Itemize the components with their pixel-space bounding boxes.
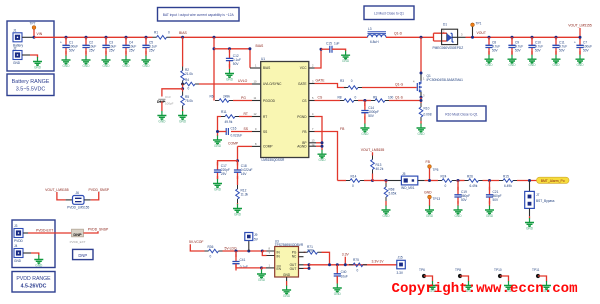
svg-text:VOUT_LM5155: VOUT_LM5155 (45, 188, 69, 192)
svg-text:100pF: 100pF (165, 102, 174, 106)
resistor R10 (419, 103, 423, 121)
svg-text:VOUT: VOUT (477, 31, 486, 35)
svg-text:100: 100 (388, 96, 394, 100)
svg-text:VCC: VCC (300, 66, 307, 70)
svg-text:GND: GND (226, 78, 234, 82)
svg-text:R10 Must Close to Q1: R10 Must Close to Q1 (445, 112, 478, 116)
svg-text:GND: GND (122, 64, 130, 68)
node Q1 drain junction (420, 36, 423, 39)
svg-text:50V: 50V (535, 49, 542, 53)
svg-text:PMEG060V050EPDZ: PMEG060V050EPDZ (433, 46, 464, 50)
capacitor C4 (125, 36, 128, 39)
svg-text:6.49k: 6.49k (504, 184, 512, 188)
wire UVLO to pin (199, 83, 252, 85)
svg-text:5.65k: 5.65k (389, 191, 397, 195)
svg-text:RT: RT (263, 115, 267, 119)
svg-text:J7: J7 (536, 193, 540, 197)
svg-text:TP6: TP6 (419, 268, 425, 272)
svg-text:GND: GND (214, 144, 222, 148)
svg-text:J5: J5 (402, 172, 406, 176)
svg-text:R8: R8 (338, 96, 342, 100)
inductor L3 (368, 32, 387, 34)
svg-text:J6: J6 (76, 191, 80, 195)
svg-text:GND: GND (508, 63, 516, 67)
svg-text:25V: 25V (221, 172, 228, 176)
ground (U3 GND pin) (286, 277, 288, 281)
wire GATE (309, 83, 315, 85)
node Q1 source junction (420, 92, 422, 97)
svg-text:49.9k: 49.9k (225, 120, 233, 124)
svg-text:PVDD-EXT: PVDD-EXT (36, 228, 53, 232)
resistor R36 (205, 249, 223, 253)
svg-text:GND: GND (82, 64, 90, 68)
svg-text:R36: R36 (208, 245, 214, 249)
node EN/GND junction (260, 266, 263, 269)
svg-text:PVDD_LM5155: PVDD_LM5155 (67, 206, 89, 210)
svg-text:PVDD_EXT: PVDD_EXT (70, 240, 86, 244)
svg-text:75.0k: 75.0k (185, 99, 193, 103)
connector J3 (14, 229, 23, 238)
svg-text:3.3V: 3.3V (397, 271, 404, 275)
testpoint TP13 GND (428, 195, 432, 199)
svg-text:Copyright:www.eccn.com: Copyright:www.eccn.com (392, 281, 578, 297)
svg-text:50V: 50V (492, 49, 499, 53)
svg-text:50V: 50V (461, 198, 468, 202)
svg-text:GND: GND (576, 63, 584, 67)
capacitor C18 (237, 161, 239, 166)
svg-text:C16: C16 (231, 126, 237, 130)
resistor R71 (304, 251, 322, 255)
ground (J2) (33, 57, 42, 66)
svg-text:+: + (60, 41, 62, 45)
resistor R13 (371, 156, 375, 174)
node VIN junction (33, 36, 36, 39)
svg-text:RT: RT (244, 112, 248, 116)
svg-text:VOUT_LM5155: VOUT_LM5155 (361, 148, 385, 152)
svg-text:GND: GND (142, 64, 150, 68)
svg-text:R26: R26 (467, 175, 473, 179)
node PVDD_SNSP (bottom) (84, 232, 99, 233)
jumper J6 (66, 199, 73, 201)
svg-text:J4: J4 (14, 244, 18, 248)
svg-text:+: + (574, 41, 576, 45)
note box: R10 must close to Q1 (437, 106, 486, 121)
connector J4 (14, 249, 23, 258)
svg-text:5V-LDO: 5V-LDO (225, 246, 237, 250)
svg-text:Q1-S: Q1-S (395, 96, 404, 100)
svg-text:GND: GND (283, 273, 291, 277)
capacitor C2 (85, 36, 88, 39)
svg-text:COMP: COMP (228, 142, 239, 146)
svg-text:0: 0 (168, 31, 170, 35)
svg-text:D1: D1 (443, 22, 447, 26)
svg-text:10uF: 10uF (341, 275, 348, 279)
svg-text:0: 0 (188, 87, 190, 91)
svg-text:FB: FB (426, 160, 431, 164)
svg-text:3.5~5.5VDC: 3.5~5.5VDC (16, 87, 46, 93)
svg-text:DNP: DNP (157, 100, 165, 104)
svg-text:GATE: GATE (298, 82, 306, 86)
svg-text:GND: GND (486, 214, 494, 218)
svg-text:R1: R1 (154, 31, 158, 35)
svg-text:R9: R9 (373, 96, 377, 100)
wire IN pins (261, 250, 264, 253)
ground (RT/SS) (213, 136, 222, 145)
resistor R8 (340, 99, 358, 103)
svg-text:L3: L3 (368, 27, 372, 31)
node UVLO junction (181, 83, 184, 86)
svg-text:R15: R15 (503, 175, 509, 179)
resistor R24 (438, 179, 456, 183)
svg-text:R11: R11 (221, 110, 227, 114)
svg-text:Battery RANGE: Battery RANGE (12, 79, 50, 85)
capacitor C21 (489, 181, 491, 191)
svg-text:GND: GND (318, 158, 326, 162)
svg-text:U1: U1 (261, 57, 265, 61)
svg-text:TP7: TP7 (30, 22, 36, 26)
wire BP / AGND (309, 142, 316, 144)
connector J1 (13, 33, 22, 42)
svg-text:C15: C15 (326, 42, 332, 46)
svg-text:16V: 16V (241, 172, 248, 176)
svg-text:50V: 50V (493, 198, 500, 202)
svg-text:0.022uF: 0.022uF (231, 134, 243, 138)
resistor R14 (FB row) (338, 180, 347, 182)
wire CS (309, 100, 315, 102)
ground (BP/AGND/PGND) (318, 150, 327, 159)
capacitor C10 (531, 36, 534, 39)
svg-text:UVLO: UVLO (238, 79, 248, 83)
wire PGND down to ground (309, 116, 315, 118)
capacitor C11 (555, 36, 558, 39)
wire J2 to ground (22, 54, 30, 56)
capacitor C8 (488, 36, 491, 39)
svg-text:GND: GND (342, 59, 350, 63)
op-amp U3 LDO (275, 247, 299, 278)
svg-text:50V: 50V (69, 49, 76, 53)
svg-text:GND: GND (528, 63, 536, 67)
svg-text:GND: GND (258, 278, 266, 282)
svg-text:GND: GND (382, 214, 390, 218)
svg-text:R6: R6 (210, 94, 214, 98)
svg-text:IND_M01: IND_M01 (401, 186, 415, 190)
resistor R9 (371, 99, 389, 103)
svg-text:GND: GND (13, 61, 21, 65)
svg-text:0: 0 (445, 184, 447, 188)
svg-text:R24: R24 (441, 175, 447, 179)
capacitor C17 (218, 161, 238, 166)
svg-text:FB: FB (302, 130, 306, 134)
connector J15 (3.3V) (397, 260, 406, 269)
wire VIN rail (34, 36, 153, 38)
svg-text:DNP: DNP (73, 232, 82, 237)
svg-text:0.008: 0.008 (424, 113, 432, 117)
wire COMP (252, 145, 261, 147)
svg-text:J2: J2 (13, 46, 17, 50)
svg-text:21.0k: 21.0k (185, 72, 193, 76)
svg-text:EN: EN (277, 267, 282, 271)
svg-text:R10: R10 (424, 106, 430, 110)
pin NC stub (299, 256, 304, 258)
svg-text:GND: GND (158, 120, 166, 124)
svg-text:C13: C13 (165, 95, 171, 99)
node VOUT_LM5155 label top right (579, 28, 581, 37)
svg-text:PGOOD: PGOOD (263, 99, 276, 103)
svg-text:GND: GND (14, 259, 22, 263)
connector J5 (401, 176, 417, 185)
testpoint TP5 FB (428, 165, 432, 169)
capacitor C13 DNP (162, 89, 183, 97)
svg-text:249k: 249k (223, 94, 230, 98)
svg-text:GND: GND (361, 132, 369, 136)
wire to J5 (388, 180, 401, 182)
resistor R75 (349, 263, 367, 267)
resistor R12 (237, 176, 239, 185)
svg-text:SS: SS (263, 130, 267, 134)
wire BIAS rail (171, 36, 368, 38)
capacitor C9 (511, 36, 514, 39)
resistor R15 (499, 179, 517, 183)
svg-text:GND: GND (283, 294, 291, 298)
resistor R2 (181, 67, 185, 85)
resistor R4 (181, 83, 183, 85)
svg-text:BST_Bypass: BST_Bypass (536, 199, 555, 203)
svg-text:25V: 25V (149, 49, 156, 53)
PVDD input box (12, 220, 55, 268)
svg-text:VIN: VIN (37, 32, 43, 36)
svg-text:0: 0 (357, 268, 359, 272)
battery input box (7, 21, 54, 71)
svg-text:GND: GND (485, 63, 493, 67)
svg-text:PVDD: PVDD (14, 239, 24, 243)
svg-text:UVLO/SYNC: UVLO/SYNC (263, 82, 282, 86)
svg-text:25V: 25V (109, 49, 116, 53)
resistor R3 (344, 86, 362, 90)
svg-text:C41: C41 (240, 258, 246, 262)
svg-text:C40: C40 (341, 270, 347, 274)
op-amp U1 LM5155 boost controller (261, 62, 309, 158)
svg-text:R14: R14 (351, 175, 357, 179)
svg-text:LM5155QDSSR: LM5155QDSSR (262, 158, 286, 162)
svg-text:IPC50N04S5L5A5ATMA1: IPC50N04S5L5A5ATMA1 (427, 78, 464, 82)
svg-text:GND: GND (454, 214, 462, 218)
svg-text:COMP: COMP (263, 145, 273, 149)
wire J1 to VIN node (22, 36, 34, 38)
capacitor C16 (SS) (252, 131, 261, 133)
svg-text:GND: GND (234, 213, 242, 217)
svg-text:CS: CS (302, 99, 306, 103)
ferrite FB1 DNP (72, 229, 84, 237)
svg-text:1uF: 1uF (334, 42, 340, 46)
svg-text:PVDD_SNSP: PVDD_SNSP (88, 227, 109, 231)
svg-text:GND: GND (424, 191, 432, 195)
resistor R1 (153, 36, 171, 40)
svg-text:L3 Must Close to Q1: L3 Must Close to Q1 (374, 12, 404, 16)
svg-text:4.5-26VDC: 4.5-26VDC (21, 284, 47, 290)
svg-text:Q1-G: Q1-G (395, 83, 404, 87)
wire diode to VOUT rail (466, 36, 581, 38)
svg-text:50V: 50V (368, 114, 375, 118)
svg-text:GND: GND (214, 188, 222, 192)
svg-text:0: 0 (351, 79, 353, 83)
svg-text:SS: SS (244, 127, 249, 131)
diode D1 (433, 33, 435, 41)
svg-text:50V: 50V (515, 49, 522, 53)
capacitor C3 (105, 36, 108, 39)
svg-text:NC: NC (292, 255, 297, 259)
svg-text:GND: GND (102, 64, 110, 68)
note box DNP (73, 249, 93, 259)
node BIAS junction / wire down to R2 (181, 36, 184, 39)
capacitor C41 (235, 250, 238, 253)
svg-text:GATE: GATE (316, 79, 326, 83)
svg-text:GND: GND (35, 264, 43, 268)
resistor R6 (PGOOD pull-up) (215, 99, 233, 103)
svg-text:R75: R75 (353, 258, 359, 262)
svg-text:GND: GND (34, 66, 42, 70)
svg-text:3.3V: 3.3V (342, 253, 350, 257)
svg-text:CS: CS (318, 96, 323, 100)
svg-text:40.2k: 40.2k (376, 167, 384, 171)
svg-text:GND: GND (552, 63, 560, 67)
svg-text:R4: R4 (185, 78, 189, 82)
capacitor C40 (336, 263, 339, 266)
wire VCC to bypass (309, 67, 315, 69)
node BMT_Alarm_Po (highlighted) (537, 177, 570, 183)
svg-text:GND: GND (179, 120, 187, 124)
svg-text:GND: GND (62, 64, 70, 68)
transistor Q1 (420, 37, 422, 73)
wire U3 OUT (299, 265, 304, 269)
svg-text:J3: J3 (14, 224, 18, 228)
svg-text:BAT input / output wire curren: BAT input / output wire current capabili… (163, 13, 235, 17)
connector J7 BST_Bypass (529, 181, 531, 192)
connector J2 (13, 51, 22, 60)
svg-text:J1: J1 (13, 29, 17, 33)
svg-text:6.49k: 6.49k (470, 184, 478, 188)
svg-text:TP10: TP10 (494, 268, 502, 272)
capacitor C7 (579, 37, 581, 40)
svg-text:BIAS: BIAS (179, 31, 187, 35)
note box: L3 must close to Q1 (364, 6, 414, 20)
svg-text:BIAS: BIAS (256, 44, 264, 48)
svg-text:AGND: AGND (297, 145, 307, 149)
svg-text:3.3V-1V: 3.3V-1V (372, 260, 385, 264)
svg-text:GND: GND (526, 227, 534, 231)
svg-text:11.3k: 11.3k (241, 192, 249, 196)
svg-text:TP11: TP11 (532, 268, 540, 272)
svg-text:GND: GND (426, 214, 434, 218)
svg-text:249k: 249k (307, 248, 314, 252)
svg-text:PGND: PGND (297, 115, 307, 119)
svg-text:50V: 50V (233, 62, 240, 66)
svg-text:FB: FB (340, 127, 345, 131)
capacitor C12 (228, 47, 231, 50)
svg-text:GND: GND (417, 132, 425, 136)
connector J9 (5V) (247, 250, 250, 253)
svg-text:TP5: TP5 (433, 168, 439, 172)
capacitor C15 (VCC bypass) (321, 48, 330, 50)
svg-text:25V: 25V (89, 49, 96, 53)
svg-text:Q1-D: Q1-D (394, 31, 403, 35)
resistor R26 (465, 179, 483, 183)
svg-text:0: 0 (355, 96, 357, 100)
wire FB (309, 131, 315, 133)
svg-text:J15: J15 (398, 256, 403, 260)
note box: BAT wire current (158, 8, 240, 22)
svg-text:50V: 50V (559, 49, 566, 53)
node FB divider top / label VOUT_LM5155 (371, 179, 374, 182)
wire PVDD-EXT (23, 232, 28, 234)
wire L3 to diode (386, 36, 434, 38)
svg-text:R3: R3 (340, 79, 344, 83)
svg-text:25V: 25V (129, 49, 136, 53)
capacitor C14 (364, 101, 366, 107)
node rail to PGOOD drop (213, 36, 216, 39)
svg-text:DNP: DNP (78, 253, 87, 258)
svg-text:TPS7B6950QDBVR: TPS7B6950QDBVR (275, 243, 304, 247)
svg-text:0: 0 (210, 254, 212, 258)
svg-text:TP1: TP1 (476, 21, 482, 25)
svg-text:0: 0 (352, 184, 354, 188)
svg-text:PG: PG (292, 250, 297, 254)
testpoint TP1 VOUT (471, 23, 475, 27)
resistor R11 (RT) (252, 116, 261, 118)
svg-text:50V: 50V (583, 49, 590, 53)
svg-text:OUT: OUT (290, 267, 297, 271)
svg-text:TP8: TP8 (455, 268, 461, 272)
svg-text:PG: PG (241, 96, 246, 100)
svg-text:GND: GND (334, 292, 342, 296)
svg-text:TP13: TP13 (433, 197, 441, 201)
svg-text:6.8uH: 6.8uH (370, 40, 379, 44)
svg-text:VOUT_LM5155: VOUT_LM5155 (568, 23, 592, 27)
svg-text:BIAS: BIAS (263, 66, 270, 70)
svg-text:PVDD RANGE: PVDD RANGE (16, 276, 51, 282)
svg-text:PVDD_SNSP: PVDD_SNSP (88, 188, 109, 192)
wire BIAS pin feed (213, 47, 216, 50)
capacitor C1 (65, 36, 68, 39)
node PVDD_SNSP (top) (91, 192, 99, 200)
resistor R68 (FB low side) (385, 181, 387, 184)
capacitor C5 (145, 36, 148, 39)
wire U3 PG pull-up (299, 251, 304, 253)
svg-text:BMT_Alarm_Po: BMT_Alarm_Po (541, 179, 565, 183)
testpoint TP7 VIN (32, 26, 36, 30)
resistor R5 (182, 89, 184, 92)
wire J4 to ground (23, 252, 31, 254)
wire FB node (373, 180, 389, 182)
svg-text:5V-VCOF: 5V-VCOF (189, 240, 204, 244)
capacitor C19 (457, 181, 459, 191)
